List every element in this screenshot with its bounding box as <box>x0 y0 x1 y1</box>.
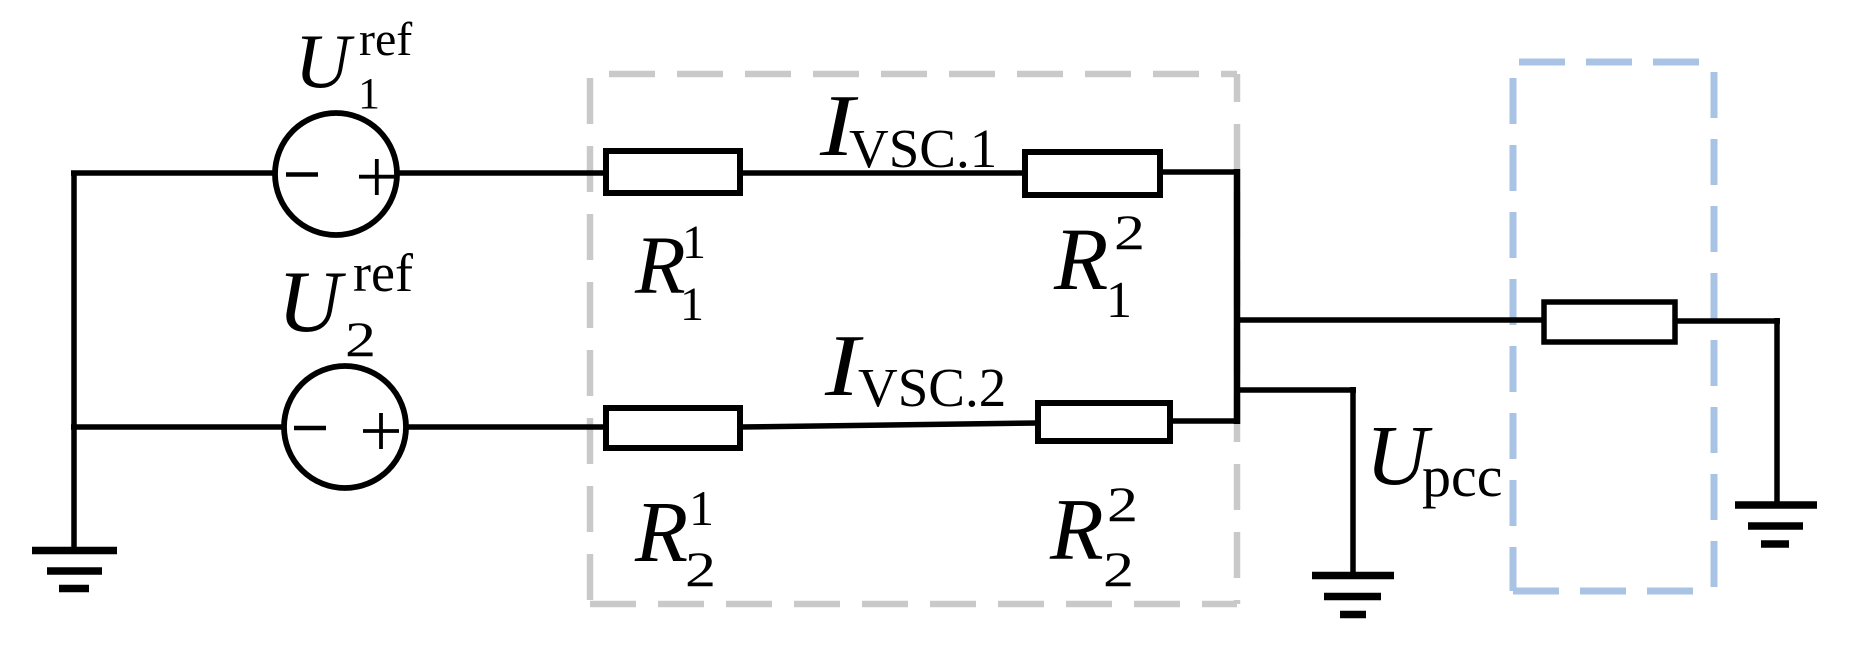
svg-text:R: R <box>634 219 686 311</box>
svg-text:R: R <box>634 483 688 580</box>
svg-text:ref: ref <box>359 13 412 66</box>
ground Upcc <box>1312 576 1394 615</box>
svg-text:R: R <box>1053 211 1108 309</box>
wire: R1_2 to bus corner <box>1160 169 1240 175</box>
label U1^ref <box>295 13 413 118</box>
label R1^1 <box>634 216 706 331</box>
wire: R1_1 to R1_2 (under I_VSC.1) <box>740 170 1025 176</box>
wire: row2 left rail to VS2 <box>71 424 283 430</box>
resistor grid impedance <box>1544 302 1675 342</box>
resistor R1^2 <box>1025 152 1160 195</box>
resistor R1^1 <box>606 151 740 193</box>
wire: R2_1 to R2_2 (under I_VSC.2) <box>740 423 1038 427</box>
label U_pcc <box>1366 407 1503 509</box>
wire: left vertical rail <box>71 171 77 551</box>
wire: Upcc branch horizontal <box>1237 387 1356 393</box>
svg-text:2: 2 <box>1107 476 1138 532</box>
label R2^1 <box>634 480 716 597</box>
svg-text:ref: ref <box>353 243 413 303</box>
svg-text:2: 2 <box>1114 204 1145 260</box>
label R2^2 <box>1049 476 1138 597</box>
svg-text:1: 1 <box>682 216 706 269</box>
U1 plus sign <box>359 175 395 179</box>
U2 minus sign <box>294 426 326 431</box>
label I_VSC.1 <box>819 78 997 179</box>
wire: vertical bus <box>1234 169 1241 424</box>
ground left <box>32 551 117 589</box>
svg-text:R: R <box>1049 482 1104 579</box>
wire: row1 left rail to VS1 <box>71 170 274 176</box>
U2 plus sign <box>363 429 399 433</box>
svg-text:VSC.2: VSC.2 <box>858 357 1006 418</box>
wire: Upcc branch vertical to ground <box>1350 387 1356 574</box>
svg-text:1: 1 <box>1106 272 1132 329</box>
label I_VSC.2 <box>824 318 1006 418</box>
wire: bus to grid resistor <box>1237 317 1544 323</box>
svg-text:2: 2 <box>1103 541 1134 597</box>
svg-text:2: 2 <box>685 541 716 597</box>
dashed gray box (VSC network) <box>590 74 1237 604</box>
ground right <box>1735 505 1817 544</box>
wire: grid resistor to right rail <box>1675 318 1780 324</box>
svg-text:U: U <box>295 18 355 104</box>
wire: VS1 to R1_1 <box>398 170 606 176</box>
svg-text:1: 1 <box>689 480 714 536</box>
label U2^ref <box>278 243 413 367</box>
svg-text:1: 1 <box>680 278 704 331</box>
wire: R2_2 to bus bottom <box>1170 418 1240 424</box>
resistor R2^2 <box>1038 403 1170 441</box>
svg-text:U: U <box>278 254 347 351</box>
svg-text:VSC.1: VSC.1 <box>849 118 997 179</box>
svg-text:pcc: pcc <box>1422 444 1503 509</box>
label R1^2 <box>1053 204 1145 329</box>
wire: right vertical to ground <box>1774 318 1780 505</box>
resistor R2^1 <box>606 408 740 448</box>
voltage source U2 (circle) <box>284 366 406 488</box>
wire: VS2 to R2_1 <box>407 424 606 430</box>
dashed blue box (grid) <box>1513 62 1714 591</box>
svg-text:1: 1 <box>358 69 380 118</box>
svg-text:2: 2 <box>345 311 376 367</box>
voltage source U1 (circle) <box>275 113 397 235</box>
U1 minus sign <box>286 172 318 177</box>
